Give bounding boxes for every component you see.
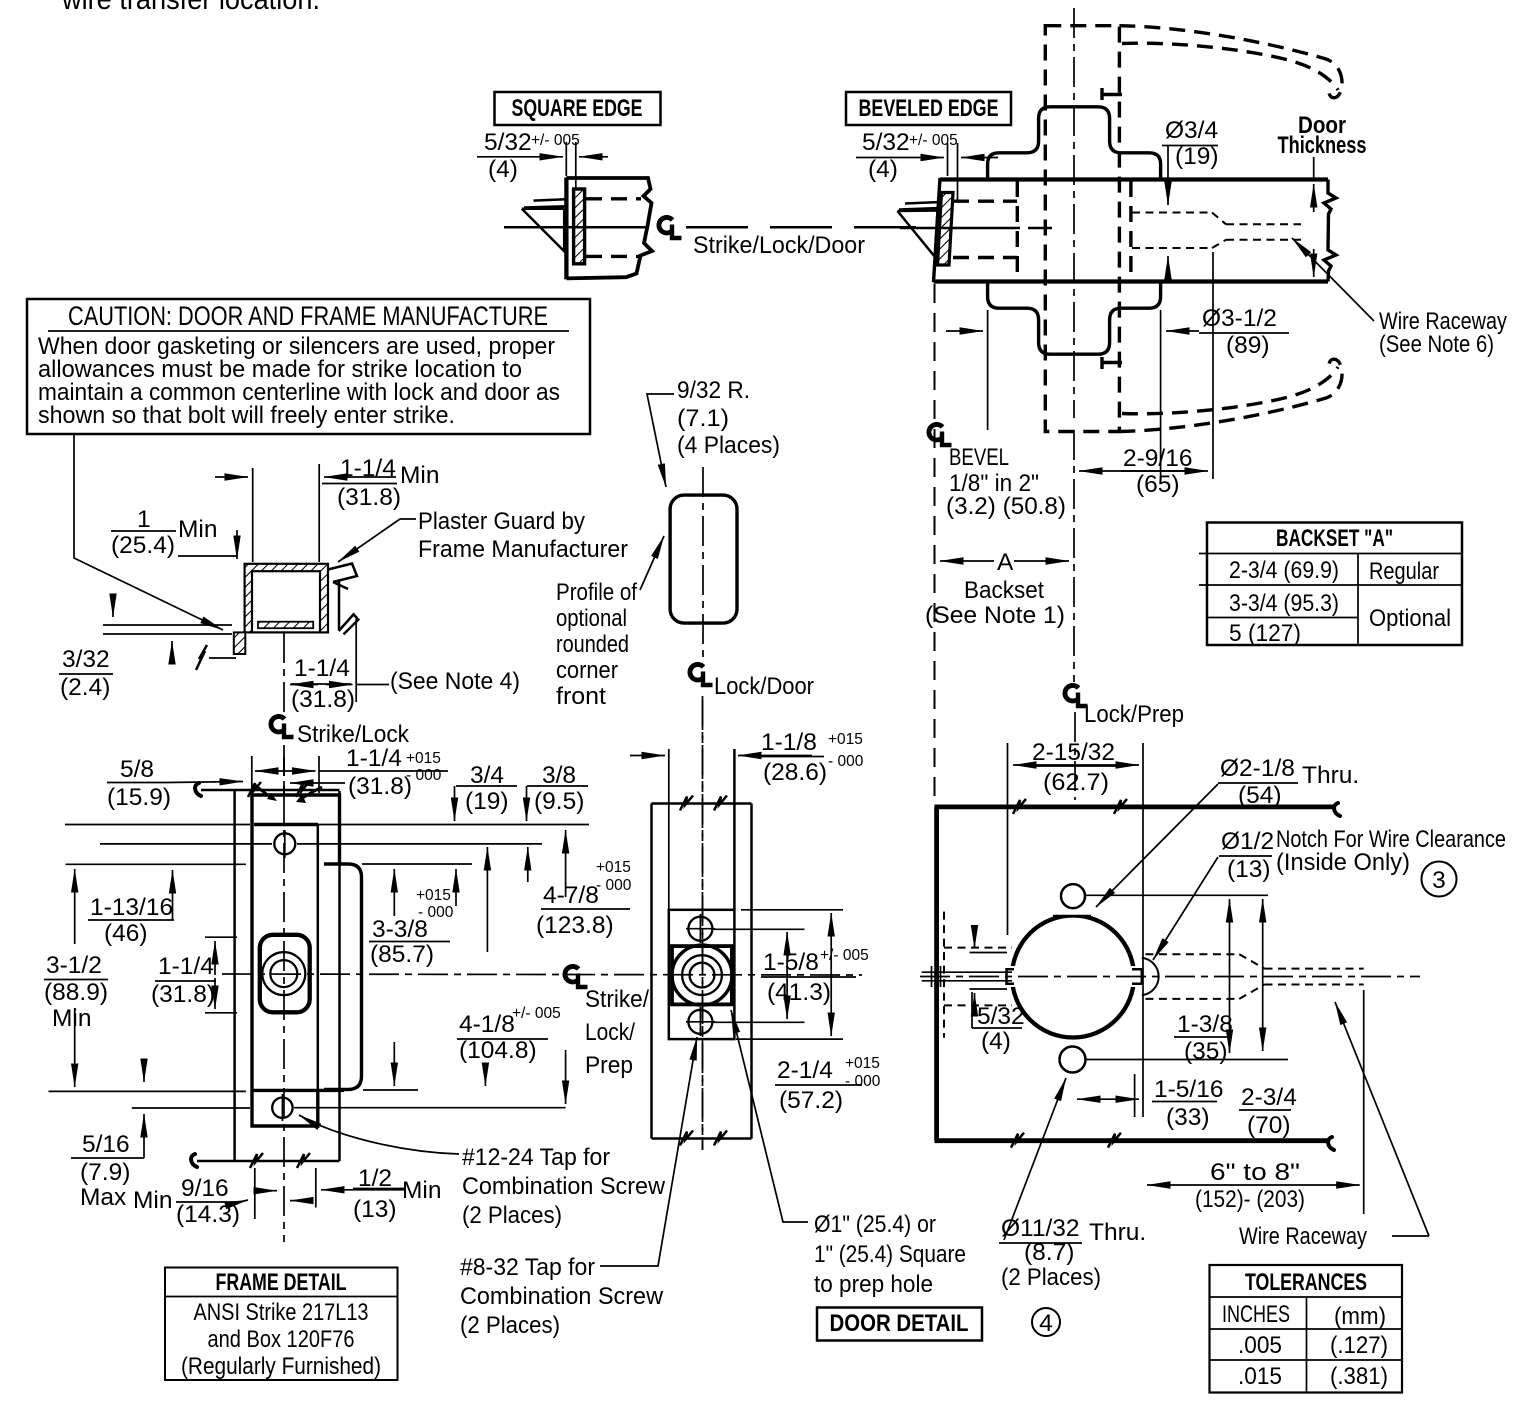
extension lines right: [297, 843, 542, 845]
mortise outline: [669, 910, 735, 1039]
dimension 6" to 8" (152)-(203): [1147, 1184, 1360, 1186]
svg-text:SQUARE EDGE: SQUARE EDGE: [512, 95, 643, 122]
1-1/4 (31.8) lower dimension (See Note 4): [355, 619, 357, 702]
svg-text:1-13/16: 1-13/16: [90, 894, 173, 921]
svg-text:Plaster Guard by: Plaster Guard by: [418, 508, 586, 535]
svg-text:FRAME DETAIL: FRAME DETAIL: [216, 1269, 347, 1296]
svg-text:1-3/8: 1-3/8: [1177, 1011, 1233, 1038]
svg-text:(62.7): (62.7): [1043, 769, 1109, 796]
svg-text:front: front: [556, 683, 606, 710]
svg-text:- 000: - 000: [845, 1073, 881, 1090]
door right edge with breaks: [1324, 180, 1336, 282]
svg-text:4-1/8: 4-1/8: [459, 1011, 515, 1038]
svg-text:2-15/32: 2-15/32: [1032, 739, 1115, 766]
centerline in bevel view: [900, 227, 1020, 230]
dimension 1-1/4 +015/-000 (31.8) plate width: [251, 756, 253, 793]
svg-text:9/16: 9/16: [181, 1175, 229, 1202]
rose profile top: [988, 107, 1161, 180]
svg-text:5/32: 5/32: [977, 1003, 1025, 1030]
svg-text:(13): (13): [1227, 856, 1271, 883]
latch face verticals: [931, 966, 933, 987]
DOOR DETAIL title box: [817, 1308, 982, 1341]
hidden chassis rectangle: [1045, 26, 1119, 432]
door edge outline: [652, 802, 752, 805]
hidden latch case lines in door: [953, 199, 1017, 202]
svg-text:(25.4): (25.4): [111, 532, 175, 559]
svg-text:(19): (19): [1175, 143, 1219, 170]
svg-text:5 (127): 5 (127): [1229, 620, 1301, 647]
svg-text:+/- 005: +/- 005: [512, 1005, 561, 1022]
svg-text:1-5/8: 1-5/8: [763, 949, 819, 976]
break squiggle on frame line: [196, 645, 207, 670]
svg-text:(4): (4): [488, 156, 518, 183]
svg-text:+015: +015: [845, 1055, 880, 1072]
strike plate right edge: [317, 825, 320, 1127]
svg-text:Ø1" (25.4) or: Ø1" (25.4) or: [814, 1211, 936, 1238]
svg-text:(85.7): (85.7): [370, 941, 434, 968]
circled 4: [1032, 1308, 1060, 1336]
square prep hole: [672, 946, 732, 1004]
svg-text:optional: optional: [556, 605, 627, 632]
right tab notch: [1132, 969, 1142, 983]
rose profile bottom: [988, 281, 1161, 354]
svg-text:(2 Places): (2 Places): [460, 1312, 560, 1339]
beveled latch bolt: [899, 202, 941, 210]
svg-text:(31.8): (31.8): [291, 686, 355, 713]
svg-text:3: 3: [1432, 867, 1446, 894]
centerline Lock/Door: [690, 664, 713, 685]
svg-text:(4): (4): [981, 1028, 1011, 1055]
svg-text:(See Note 6): (See Note 6): [1379, 331, 1494, 358]
door face left edge: [934, 807, 939, 1141]
svg-text:rounded: rounded: [556, 631, 629, 658]
svg-text:(31.8): (31.8): [337, 484, 401, 511]
svg-text:+015: +015: [596, 859, 631, 876]
svg-text:wire transfer location.: wire transfer location.: [61, 0, 320, 16]
TOLERANCES table: [1210, 1265, 1403, 1393]
svg-text:(152)- (203): (152)- (203): [1195, 1186, 1305, 1213]
wire notch semicircle Ø1/2: [1142, 958, 1159, 995]
dimension 1-5/16 (33): [1077, 1098, 1139, 1100]
svg-text:Ø3/4: Ø3/4: [1165, 117, 1218, 144]
svg-text:+015: +015: [828, 731, 863, 748]
svg-text:BEVELED EDGE: BEVELED EDGE: [859, 95, 999, 122]
svg-text:CAUTION: DOOR AND FRAME MANUFA: CAUTION: DOOR AND FRAME MANUFACTURE: [68, 301, 548, 331]
extension lines left: [65, 824, 250, 826]
profile of rounded corner front: [670, 495, 737, 623]
square-edge door body: [564, 178, 568, 280]
ANSI strike opening: [260, 935, 310, 1013]
screw hole top: [274, 833, 295, 854]
svg-text:(4): (4): [868, 156, 898, 183]
door edge vertical centerline: [702, 700, 704, 1150]
svg-text:(89): (89): [1226, 332, 1270, 359]
svg-text:(33): (33): [1166, 1104, 1210, 1131]
up arrows under plate top lines: [393, 869, 395, 916]
svg-text:(35): (35): [1184, 1038, 1228, 1065]
dimension 2-3/4 (70): [1262, 899, 1264, 1051]
svg-text:3-3/4 (95.3): 3-3/4 (95.3): [1229, 590, 1339, 617]
bottom small hole Ø11/32: [1060, 1047, 1086, 1073]
frame corner block (hatched): [234, 632, 246, 654]
svg-text:Min: Min: [133, 1187, 172, 1214]
svg-text:5/32: 5/32: [484, 129, 532, 156]
extension lines right: [714, 928, 805, 930]
svg-text:+015: +015: [406, 750, 441, 767]
svg-text:(19): (19): [465, 788, 509, 815]
svg-text:(2 Places): (2 Places): [1001, 1264, 1101, 1291]
svg-text:Wire Raceway: Wire Raceway: [1239, 1223, 1368, 1250]
svg-text:1: 1: [137, 506, 151, 533]
title box BEVELED EDGE: [846, 92, 1011, 125]
svg-text:corner: corner: [556, 657, 618, 684]
horizontal centerline face view: [920, 976, 1420, 978]
svg-text:INCHES: INCHES: [1222, 1301, 1290, 1328]
svg-text:4-7/8: 4-7/8: [543, 882, 599, 909]
dimension 1/2 (13) Min: [321, 1189, 404, 1191]
svg-text:Min: Min: [402, 1177, 441, 1204]
svg-text:5/16: 5/16: [82, 1131, 130, 1158]
door face top edge: [935, 805, 1334, 810]
svg-text:4: 4: [1039, 1310, 1053, 1337]
svg-text:(2 Places): (2 Places): [462, 1202, 562, 1229]
frame jamb lines: [233, 791, 236, 1161]
svg-text:Optional: Optional: [1369, 605, 1451, 632]
svg-text:Prep: Prep: [585, 1052, 633, 1079]
svg-text:Strike/: Strike/: [585, 986, 649, 1013]
beveled door slab: [940, 177, 1328, 181]
left tab notch: [1007, 969, 1015, 983]
svg-text:(mm): (mm): [1334, 1303, 1386, 1330]
title box SQUARE EDGE: [495, 92, 661, 125]
beveled strike plate (hatched): [938, 193, 954, 266]
squiggle leaders at plate top: [255, 785, 272, 798]
svg-text:Backset: Backset: [964, 577, 1044, 604]
svg-text:(2.4): (2.4): [60, 674, 110, 701]
dimension 5/32 (4) latch offset: [970, 952, 1008, 954]
svg-text:(14.3): (14.3): [176, 1201, 240, 1228]
strike lip strip inside guard: [258, 622, 313, 629]
centerline arrow at plate top: [290, 782, 345, 784]
svg-text:1-1/8: 1-1/8: [761, 729, 817, 756]
latch bolt protruding: [922, 971, 1012, 973]
extension verticals 2-15/32: [1007, 743, 1009, 935]
svg-text:(.381): (.381): [1330, 1363, 1388, 1390]
hidden latch case left: [943, 912, 945, 1038]
svg-text:and Box 120F76: and Box 120F76: [208, 1326, 355, 1353]
svg-text:Thru.: Thru.: [1302, 762, 1359, 789]
dimension 1-3/8 (35): [1229, 899, 1231, 1053]
svg-text:+/- 005: +/- 005: [820, 947, 869, 964]
svg-text:2-3/4: 2-3/4: [1241, 1084, 1297, 1111]
svg-text:(28.6): (28.6): [763, 759, 827, 786]
faceplate edge lines: [668, 749, 670, 910]
dimension A backset: [940, 560, 994, 562]
svg-text:- 000: - 000: [418, 904, 454, 921]
svg-text:(88.9): (88.9): [44, 979, 108, 1006]
svg-text:9/32 R.: 9/32 R.: [677, 377, 750, 404]
svg-text:+015: +015: [416, 887, 451, 904]
svg-text:3-1/2: 3-1/2: [46, 952, 102, 979]
svg-text:5/32: 5/32: [862, 129, 910, 156]
frame bottom border with breaks: [197, 1160, 340, 1163]
svg-text:(123.8): (123.8): [536, 912, 614, 939]
centerline strike/lock/door: [504, 226, 646, 229]
angled frame stop: [339, 614, 359, 634]
latch bolt: [524, 199, 566, 207]
svg-text:1-1/4: 1-1/4: [340, 455, 396, 482]
svg-text:(57.2): (57.2): [779, 1087, 843, 1114]
svg-text:to prep hole: to prep hole: [814, 1271, 933, 1298]
svg-text:(7.1): (7.1): [677, 405, 729, 432]
svg-text:3/8: 3/8: [542, 762, 576, 789]
dimension 1-1/8 +015/-000 (28.6): [630, 755, 665, 757]
svg-text:(8.7): (8.7): [1024, 1239, 1074, 1266]
strike plate (hatched): [574, 189, 585, 264]
svg-text:Min: Min: [178, 516, 217, 543]
svg-text:BACKSET "A": BACKSET "A": [1276, 525, 1393, 552]
svg-text:1-1/4: 1-1/4: [158, 953, 214, 980]
svg-text:#12-24 Tap for: #12-24 Tap for: [462, 1144, 610, 1171]
vertical centerline of lock: [1073, 8, 1075, 418]
svg-text:(65): (65): [1136, 471, 1180, 498]
svg-text:A: A: [997, 549, 1014, 576]
hidden dashed lines in door: [586, 197, 641, 200]
strike lip: [324, 864, 362, 1090]
dimension 2-15/32 (62.7): [1013, 764, 1139, 766]
svg-text:(46): (46): [104, 920, 148, 947]
main bore circle Ø2-1/8: [1012, 916, 1134, 1038]
svg-text:Combination Screw: Combination Screw: [460, 1283, 663, 1310]
svg-text:.015: .015: [1238, 1363, 1282, 1390]
svg-text:Min: Min: [52, 1005, 91, 1032]
down arrows to bottom lines: [393, 1042, 395, 1086]
door thickness dimension arrows: [1313, 157, 1315, 178]
svg-text:6" to 8": 6" to 8": [1210, 1159, 1300, 1186]
svg-text:Thickness: Thickness: [1278, 132, 1367, 159]
frame top border with breaks: [201, 789, 340, 792]
svg-text:TOLERANCES: TOLERANCES: [1245, 1269, 1367, 1296]
svg-text:Combination Screw: Combination Screw: [462, 1173, 665, 1200]
dimension 2-1/4 +015/-000 (57.2): [830, 913, 832, 1036]
svg-text:BEVEL: BEVEL: [949, 444, 1009, 471]
svg-text:Thru.: Thru.: [1089, 1219, 1146, 1246]
svg-text:Lock/Door: Lock/Door: [714, 673, 814, 700]
dimension 1-5/8 +/-005 (41.3): [786, 932, 788, 1019]
svg-text:1-1/4: 1-1/4: [294, 655, 350, 682]
svg-text:.005: .005: [1238, 1332, 1282, 1359]
svg-text:Ø1/2: Ø1/2: [1221, 828, 1274, 855]
svg-text:3/32: 3/32: [62, 646, 110, 673]
svg-text:Ø2-1/8: Ø2-1/8: [1220, 755, 1295, 782]
svg-text:(Inside Only): (Inside Only): [1276, 849, 1410, 876]
circled 3: [1422, 862, 1457, 897]
svg-text:DOOR DETAIL: DOOR DETAIL: [830, 1310, 969, 1337]
svg-text:Strike/Lock: Strike/Lock: [297, 721, 410, 748]
svg-text:(70): (70): [1247, 1112, 1291, 1139]
svg-text:(31.8): (31.8): [348, 773, 412, 800]
hidden rose diameter lines in door: [1016, 181, 1019, 280]
svg-text:2-1/4: 2-1/4: [777, 1057, 833, 1084]
svg-text:Profile of: Profile of: [556, 579, 637, 606]
centerline strike/lock/prep horizontal: [222, 974, 862, 975]
screw holes door edge: [688, 917, 712, 941]
svg-text:Frame Manufacturer: Frame Manufacturer: [418, 536, 628, 563]
svg-text:(104.8): (104.8): [459, 1037, 537, 1064]
svg-text:- 000: - 000: [596, 877, 632, 894]
svg-text:(See Note 4): (See Note 4): [390, 668, 520, 695]
svg-text:1" (25.4) Square: 1" (25.4) Square: [814, 1241, 966, 1268]
svg-text:Lock/Prep: Lock/Prep: [1084, 701, 1184, 728]
wire hole dashed (Ø3/4): [1132, 212, 1212, 214]
frame return at right: [328, 564, 357, 583]
plaster guard hatched box: [245, 564, 328, 633]
svg-text:(54): (54): [1238, 782, 1282, 809]
frame face lines left: [103, 624, 232, 626]
screw hole bottom: [272, 1098, 292, 1118]
svg-text:(9.5): (9.5): [534, 788, 584, 815]
FRAME DETAIL box: [165, 1268, 398, 1381]
svg-text:Max: Max: [80, 1184, 126, 1211]
svg-text:shown so that bolt will freely: shown so that bolt will freely enter str…: [38, 402, 455, 429]
strike plate top edge: [254, 823, 318, 826]
svg-text:2-3/4 (69.9): 2-3/4 (69.9): [1229, 557, 1339, 584]
bevel left face: [934, 178, 941, 282]
centerline symbol BEVEL: [929, 424, 952, 445]
3/32 (2.4) dimension: [112, 601, 114, 617]
svg-text:1-5/16: 1-5/16: [1154, 1076, 1223, 1103]
svg-text:(4 Places): (4 Places): [677, 432, 780, 459]
svg-text:#8-32 Tap for: #8-32 Tap for: [460, 1254, 595, 1281]
svg-text:Min: Min: [400, 462, 439, 489]
extension lines for 1-3/8 and 2-3/4: [1084, 894, 1268, 896]
top small hole: [1061, 884, 1085, 908]
svg-text:5/8: 5/8: [120, 756, 154, 783]
svg-text:(15.9): (15.9): [107, 784, 171, 811]
hidden latch tunnel right: [1145, 953, 1239, 955]
svg-text:(31.8): (31.8): [151, 981, 215, 1008]
prep circles: [672, 945, 732, 1005]
svg-text:(13): (13): [353, 1196, 397, 1223]
lever handle bottom (hidden): [1119, 359, 1342, 431]
dashed door edge line (backset reference): [934, 284, 936, 800]
1-1/4 Min (31.8) top dimension: [252, 468, 254, 562]
svg-text:- 000: - 000: [828, 753, 864, 770]
strike box outline: [252, 795, 340, 1126]
lever handle top (hidden): [1119, 26, 1342, 98]
svg-text:+/- 005: +/- 005: [531, 132, 580, 149]
svg-text:(3.2) (50.8): (3.2) (50.8): [946, 493, 1066, 520]
svg-text:Regular: Regular: [1369, 558, 1439, 585]
svg-text:2-9/16: 2-9/16: [1123, 445, 1192, 472]
svg-text:1-1/4: 1-1/4: [346, 745, 402, 772]
svg-text:(.127): (.127): [1330, 1332, 1388, 1359]
centerline lock/prep continues: [1073, 430, 1075, 682]
strike center hole: [262, 952, 305, 995]
svg-text:ANSI Strike 217L13: ANSI Strike 217L13: [194, 1299, 369, 1326]
svg-text:(Regularly Furnished): (Regularly Furnished): [181, 1353, 381, 1380]
leader from caution box to plaster guard area: [74, 434, 223, 630]
svg-text:Strike/Lock/Door: Strike/Lock/Door: [693, 232, 865, 259]
dimension 5/16 (7.9) Max: [143, 1060, 145, 1082]
svg-text:Lock/: Lock/: [585, 1019, 635, 1046]
door face bottom edge: [935, 1138, 1328, 1143]
svg-text:3/4: 3/4: [470, 762, 504, 789]
svg-text:(41.3): (41.3): [767, 979, 831, 1006]
svg-text:(7.9): (7.9): [80, 1159, 130, 1186]
centerline strike/lock below guard: [283, 633, 285, 712]
svg-text:(See Note 1): (See Note 1): [925, 602, 1065, 629]
svg-text:+/- 005: +/- 005: [909, 132, 958, 149]
wire raceway dashed: [1226, 223, 1301, 225]
